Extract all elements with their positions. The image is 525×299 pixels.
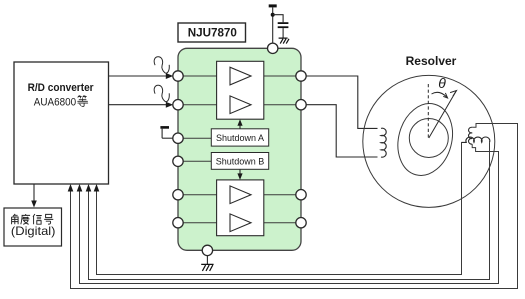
resolver shaft circle xyxy=(409,119,448,158)
svg-text:Shutdown A: Shutdown A xyxy=(216,133,264,143)
wire: OUT A1 to primary coil top xyxy=(306,76,377,128)
wire: VDD to bypass capacitor xyxy=(273,15,283,23)
amp block A xyxy=(217,61,264,119)
box: Shutdown B xyxy=(211,153,268,170)
svg-text:Resolver: Resolver xyxy=(406,54,457,68)
box: Shutdown A xyxy=(211,129,268,146)
theta arc arrow xyxy=(432,92,447,97)
pin: OUT B1 xyxy=(296,190,306,200)
amp block B xyxy=(217,180,264,236)
op-amp B2 xyxy=(230,214,251,232)
pin: OUT B2 xyxy=(296,218,306,228)
control arrow: Shutdown B to amp block B xyxy=(239,169,241,176)
box: R/D converter xyxy=(14,62,109,184)
svg-text:θ: θ xyxy=(438,75,446,91)
pin: IN B1 xyxy=(173,190,183,200)
ground (capacitor) xyxy=(279,38,289,44)
kanji KAKU xyxy=(12,214,19,224)
symbol: logic level input to Shutdown A xyxy=(160,126,169,129)
svg-text:NJU7870: NJU7870 xyxy=(188,25,238,39)
junction dot xyxy=(271,13,275,17)
pin: GND xyxy=(202,245,212,255)
pin: VDD xyxy=(268,43,278,53)
kanji DO xyxy=(21,214,30,224)
wire: OUT A2 to primary coil bottom xyxy=(306,105,377,157)
wire: feedback bus line 2 (S2b to R/D) xyxy=(89,142,490,279)
kanji GOU xyxy=(44,214,53,224)
kanji SHIN xyxy=(33,214,42,224)
wire: SDB pin to Shutdown B xyxy=(178,160,211,162)
wire: IC GND pin to ground xyxy=(206,256,208,265)
ground (IC) xyxy=(201,264,213,271)
wire: feedback bus line 1 (S2a to R/D) xyxy=(97,142,462,274)
symbol: sine wave on OUT1 xyxy=(154,57,169,73)
box: angle signal (Digital) output xyxy=(4,208,62,246)
svg-text:(Digital): (Digital) xyxy=(11,224,56,238)
pin: IN A1 xyxy=(173,71,183,81)
pin: SDB xyxy=(173,156,183,166)
resolver rotor xyxy=(390,97,460,181)
svg-text:Shutdown B: Shutdown B xyxy=(216,156,265,166)
control arrow: Shutdown A to amp block A xyxy=(239,122,241,129)
wire: capacitor to ground xyxy=(282,28,284,38)
pin: IN A2 xyxy=(173,100,183,110)
svg-text:R/D converter: R/D converter xyxy=(28,82,94,94)
rotor angle arrow xyxy=(429,91,457,138)
IC body: NJU7870 (green) xyxy=(178,48,301,250)
pin: OUT A2 xyxy=(296,100,306,110)
wire: internal signal B1 xyxy=(178,194,301,196)
secondary coil S1 (vertical, bumps left) xyxy=(469,127,473,144)
op-amp A2 xyxy=(230,96,251,114)
op-amp A1 xyxy=(230,67,251,85)
wire: feedback bus line 4 (S1a to R/D) xyxy=(71,124,518,289)
wire: internal signal B2 xyxy=(178,222,301,224)
wire: R/D to digital output arrow xyxy=(33,184,35,202)
power: VDD bar xyxy=(269,4,277,7)
svg-text:AUA6800: AUA6800 xyxy=(34,96,76,108)
resolver stator circle xyxy=(363,75,495,207)
wire: to SDA pin xyxy=(162,137,173,139)
wire: internal signal A1 xyxy=(178,75,301,77)
primary coil L1 (rotor winding) xyxy=(381,128,386,157)
wire: R/D OUT1 to IN A1 xyxy=(109,75,170,77)
capacitor C1 (bypass) xyxy=(278,22,289,24)
pin: IN B2 xyxy=(173,218,183,228)
pin: OUT A1 xyxy=(296,71,306,81)
wire: VDD to pin xyxy=(272,7,274,43)
op-amp B1 xyxy=(230,186,251,204)
label box: NJU7870 xyxy=(178,23,246,42)
symbol: sine wave on OUT2 xyxy=(154,85,169,101)
wire: feedback bus line 3 (S1b to R/D) xyxy=(80,144,499,283)
wire: internal signal A2 xyxy=(178,104,301,106)
pin: SDA xyxy=(173,133,183,143)
wire: SDA pin to Shutdown A xyxy=(178,137,211,139)
wire: R/D OUT2 to IN A2 xyxy=(109,104,170,106)
dashed reference line xyxy=(427,84,429,138)
secondary coil S2 (horizontal, bumps up) xyxy=(461,137,490,142)
